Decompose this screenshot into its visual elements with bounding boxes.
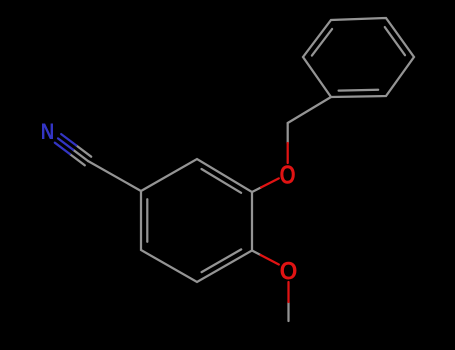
svg-text:O: O: [280, 258, 298, 286]
svg-text:O: O: [280, 160, 296, 189]
svg-text:N: N: [41, 121, 55, 145]
